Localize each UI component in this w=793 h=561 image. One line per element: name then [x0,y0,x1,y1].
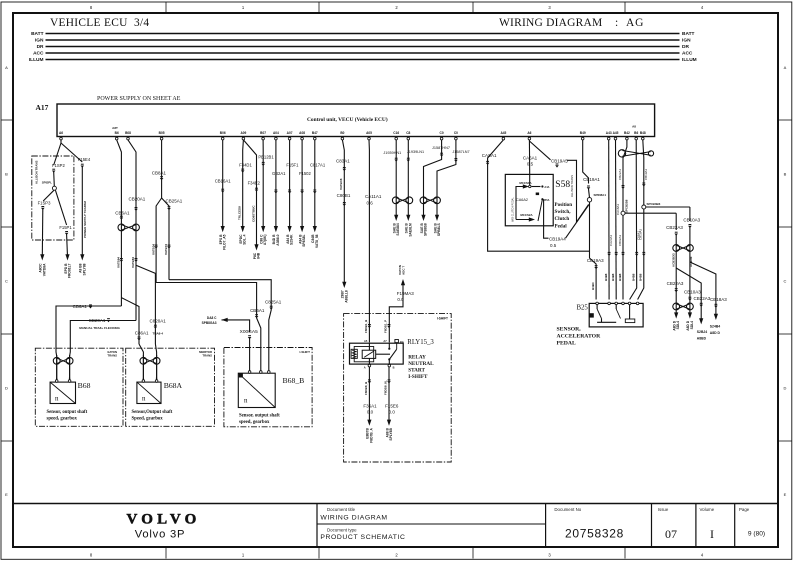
svg-text:ALLISON TRANS: ALLISON TRANS [34,160,38,184]
svg-text:C86A1: C86A1 [135,330,149,335]
svg-text:0.0: 0.0 [397,297,404,302]
svg-text:SAE884: SAE884 [396,223,400,235]
svg-text:0.0: 0.0 [367,410,374,415]
svg-text:ILLUM: ILLUM [682,57,697,63]
svg-text:CB22A3: CB22A3 [667,281,684,286]
svg-text:F15P1: F15P1 [59,225,72,230]
svg-text:C817A1: C817A1 [310,163,326,168]
svg-text:POWER SUPPLY ON SHEET AE: POWER SUPPLY ON SHEET AE [97,96,181,102]
svg-text:CB8A1: CB8A1 [152,171,167,176]
svg-text:F1SP2: F1SP2 [52,163,65,168]
svg-text:B5A: B5A [544,199,549,202]
svg-text:B4B8: B4B8 [632,273,636,281]
svg-text:SPB8LS: SPB8LS [437,223,441,237]
svg-text:Control unit, VECU (Vehicle EC: Control unit, VECU (Vehicle ECU) [307,116,388,123]
svg-text:SDL4: SDL4 [676,321,680,330]
svg-text:Sensor,Output shaft: Sensor,Output shaft [132,410,173,415]
svg-text:I-SHIFT: I-SHIFT [437,316,448,320]
svg-text:Document type: Document type [327,527,357,532]
svg-text:CB19A1: CB19A1 [644,168,648,180]
svg-text:J1939LN1: J1939LN1 [407,150,424,154]
svg-text:Issue: Issue [658,507,669,512]
svg-text:C83A1: C83A1 [336,158,350,163]
svg-text:A8BLL8: A8BLL8 [344,290,348,303]
svg-text:VOLVO: VOLVO [126,512,200,528]
svg-text:F15E4: F15E4 [78,157,91,162]
svg-text:MANUAL TRA8+ FLECKING: MANUAL TRA8+ FLECKING [79,326,120,330]
svg-text:A04: A04 [273,131,279,135]
svg-text:B49: B49 [580,131,586,135]
svg-text:A45: A45 [500,131,506,135]
svg-text:AG: AG [626,17,644,29]
svg-text:SPB8S8: SPB8S8 [424,223,428,236]
svg-text:A4A: A4A [544,186,549,189]
svg-text:CB19A2: CB19A2 [639,228,643,240]
svg-text:A: A [5,65,8,70]
svg-text:POWER SUPPLY TRA8SM: POWER SUPPLY TRA8SM [83,200,87,238]
svg-text:A5: A5 [364,339,368,343]
svg-text:GB2A1: GB2A1 [272,171,286,176]
svg-text:ILLUM: ILLUM [29,57,44,63]
svg-text:A07: A07 [287,131,293,135]
svg-text:F8DB8_8L: F8DB8_8L [384,380,388,395]
svg-text:B4B8: B4B8 [639,273,643,281]
svg-text:SPCB2B8: SPCB2B8 [625,199,629,213]
svg-text:F8DB8_B: F8DB8_B [364,381,368,395]
svg-text:B68A: B68A [164,381,183,390]
svg-text:B6: B6 [115,131,119,135]
svg-text:A3B8.0: A3B8.0 [276,234,280,245]
svg-text:VEHICLE ECU 3/4: VEHICLE ECU 3/4 [50,17,149,29]
svg-text:TRANS: TRANS [202,354,212,358]
svg-text:B6: B6 [634,131,638,135]
svg-text:ACC: ACC [33,51,44,57]
svg-text:A05: A05 [366,131,372,135]
svg-text:MCCS2A: MCCS2A [520,213,533,217]
svg-text:BATT: BATT [31,31,44,37]
svg-text:Sensor, output shaft: Sensor, output shaft [239,414,280,419]
svg-text:SP8S8L: SP8S8L [302,235,306,247]
svg-text:CB10A3: CB10A3 [683,217,700,222]
svg-text:A6: A6 [59,131,63,135]
svg-text:ALLISON TRANS: ALLISON TRANS [570,175,574,197]
svg-text:F36A1: F36A1 [363,404,377,409]
svg-text:Document title: Document title [327,507,356,512]
svg-text:0.5: 0.5 [550,243,557,248]
svg-text:B4B8: B4B8 [604,273,608,281]
svg-text:ACC: ACC [682,51,693,57]
svg-text:B42: B42 [624,131,630,135]
svg-text:CB19A5: CB19A5 [551,158,568,163]
svg-text:Sensor, output shaft: Sensor, output shaft [47,410,88,415]
svg-text:ACCELERATOR: ACCELERATOR [557,334,602,340]
svg-text:Clutch: Clutch [555,216,570,222]
svg-text:RLY15_3: RLY15_3 [407,339,434,346]
svg-text:B06: B06 [220,131,226,135]
svg-text:Volume: Volume [700,507,715,512]
svg-text:TRA8-4: TRA8-4 [153,332,164,336]
svg-text:START: START [408,368,425,374]
svg-text:B: B [784,172,787,177]
svg-text:C0: C0 [454,131,458,135]
svg-text:SPB8GA3: SPB8GA3 [202,321,217,325]
svg-text:CB16A1: CB16A1 [215,179,232,184]
svg-text:C0: C0 [440,131,444,135]
svg-text:speed, gearbox: speed, gearbox [47,417,78,422]
svg-text:B68: B68 [78,381,91,390]
svg-text:WIRING DIAGRAM: WIRING DIAGRAM [499,17,602,29]
svg-text:B: B [393,365,395,369]
svg-text:VAT8_58: VAT8_58 [315,234,319,248]
svg-text:I-SHIFT: I-SHIFT [300,350,311,354]
svg-text:Pedal: Pedal [555,223,568,229]
svg-text:CB10A3: CB10A3 [684,290,701,295]
svg-text:CB22A3: CB22A3 [666,225,683,230]
svg-text:A6: A6 [527,131,531,135]
svg-text:CA23A1: CA23A1 [609,234,613,246]
svg-text:CA18A1: CA18A1 [616,203,620,215]
svg-text:CB6A1: CB6A1 [115,210,130,215]
svg-text:B07: B07 [260,131,266,135]
svg-text:F15E6: F15E6 [385,404,399,409]
svg-text:DR: DR [37,44,44,50]
svg-text:CB20A1: CB20A1 [129,197,146,202]
svg-text:A09: A09 [240,131,246,135]
svg-text:C820A1: C820A1 [149,319,166,324]
svg-text:DA8 C: DA8 C [207,316,217,320]
svg-text:CB6A1: CB6A1 [73,304,88,309]
svg-text:speed, gearbox: speed, gearbox [239,420,270,425]
svg-text:B08: B08 [125,131,131,135]
svg-text:B48: B48 [640,131,646,135]
svg-text:C80B1: C80B1 [337,193,351,198]
svg-text:0.5: 0.5 [527,162,534,167]
svg-text:RELAY: RELAY [408,355,426,361]
svg-text:VATB04: VATB04 [164,244,168,255]
svg-text:B47: B47 [312,131,318,135]
svg-text:CB18A3: CB18A3 [710,297,727,302]
svg-text:F1502: F1502 [299,171,312,176]
svg-text:B4B8: B4B8 [611,273,615,281]
svg-text:SPID8A1: SPID8A1 [594,193,607,197]
svg-text:F1SP3: F1SP3 [38,200,51,205]
svg-text:Volvo 3P: Volvo 3P [135,529,186,541]
svg-text:C16: C16 [393,131,399,135]
svg-text:VATB04: VATB04 [151,244,155,255]
svg-text:S2S4K: S2S4K [290,234,294,245]
svg-text:E: E [784,492,787,497]
svg-text:07: 07 [665,527,677,541]
svg-text:MCCS3A: MCCS3A [519,181,532,185]
svg-text:A43: A43 [606,131,612,135]
svg-text:PRODUCT SCHEMATIC: PRODUCT SCHEMATIC [320,534,405,541]
svg-text:B68_B: B68_B [283,376,305,385]
svg-text:Switch,: Switch, [555,209,572,215]
svg-text:CB19A3: CB19A3 [587,258,604,263]
svg-text:SPLY88: SPLY88 [82,263,86,275]
svg-text:A8BD: A8BD [697,337,707,341]
svg-text:ADC T: ADC T [402,266,406,275]
svg-text:CB22A1: CB22A1 [618,168,622,180]
svg-text:J1587HN7: J1587HN7 [432,146,450,150]
svg-text:F8DB1_P: F8DB1_P [383,320,387,333]
svg-text:S24B4: S24B4 [710,325,720,329]
svg-text:n: n [142,395,146,403]
svg-text:C: C [5,279,8,284]
svg-text:B: B [5,172,8,177]
svg-text:SDL4: SDL4 [690,321,694,330]
svg-text:n: n [244,397,248,405]
svg-text:A8T: A8T [112,126,118,130]
svg-text:F34D1: F34D1 [239,163,252,168]
svg-text:D: D [5,386,8,391]
svg-text:VATB84: VATB84 [117,257,121,268]
svg-text:C: C [784,279,787,284]
svg-text:Position: Position [555,202,573,208]
svg-text:0.6: 0.6 [367,201,374,206]
svg-text:TRANS: TRANS [107,354,117,358]
svg-text:FILO7_A5: FILO7_A5 [223,234,227,250]
svg-text:CB6A1: CB6A1 [250,308,265,313]
svg-text:C8: C8 [406,131,410,135]
svg-text:X00GA5: X00GA5 [240,329,258,335]
svg-text:BATT: BATT [682,31,695,37]
svg-text:Document No: Document No [554,507,581,512]
svg-text:IGN: IGN [35,38,44,44]
svg-text:0.0: 0.0 [389,410,396,415]
svg-text:ACB8M: ACB8M [689,256,693,267]
svg-text:CA6A1: CA6A1 [523,156,538,161]
svg-text:SPISPL: SPISPL [42,181,53,185]
svg-text:SPCB3B3: SPCB3B3 [647,202,661,206]
svg-text:F19MA3: F19MA3 [397,291,415,296]
svg-text:B25: B25 [577,305,589,312]
svg-text:D: D [784,386,787,391]
svg-text:S58: S58 [555,180,570,190]
svg-text:VATD8A: VATD8A [42,263,46,276]
svg-text:I: I [710,527,714,541]
svg-text:J1587LN7: J1587LN7 [452,150,469,154]
svg-text:TRLCED8: TRLCED8 [238,206,242,220]
svg-text:B0: B0 [340,131,344,135]
svg-text:CA11A1: CA11A1 [365,194,382,199]
svg-text:B4BC: B4BC [591,281,595,290]
svg-text:S2BJ4: S2BJ4 [697,330,707,334]
svg-text:VATB84: VATB84 [131,257,135,268]
svg-text:E: E [5,492,8,497]
svg-text:IGN: IGN [682,38,691,44]
svg-text:C825A1: C825A1 [265,300,282,305]
svg-text:F34E2: F34E2 [248,180,261,185]
svg-text:CB22A3: CB22A3 [694,296,711,301]
svg-text:84B: 84B [257,252,261,259]
svg-text:B4B8: B4B8 [618,273,622,281]
svg-text:CB20A1: CB20A1 [89,318,106,323]
svg-text:NEUTRAL: NEUTRAL [408,361,434,367]
svg-text:SDL_4: SDL_4 [243,234,247,244]
svg-text:CASA1: CASA1 [482,153,497,158]
svg-text:B05: B05 [159,131,165,135]
svg-text:ACB3B3G: ACB3B3G [671,252,675,267]
svg-text:FRO81L7: FRO81L7 [68,263,72,278]
svg-text:CB19A1: CB19A1 [583,177,600,182]
svg-text:CB25A1: CB25A1 [166,198,183,203]
svg-text:CA6A2: CA6A2 [516,198,528,202]
svg-text:DR: DR [682,44,689,50]
svg-text:W/O CLUTCH PEDAL: W/O CLUTCH PEDAL [511,197,514,222]
svg-text:9 (80): 9 (80) [748,531,765,538]
svg-text::: : [615,17,618,29]
svg-text:A7(8K): A7(8K) [263,235,267,246]
svg-text:A8D D: A8D D [710,331,721,335]
svg-text:A: A [364,365,366,369]
svg-text:A8: A8 [632,125,636,129]
svg-text:Speed, gearbox: Speed, gearbox [132,417,164,422]
svg-text:WIRING DIAGRAM: WIRING DIAGRAM [320,514,387,521]
svg-text:A17: A17 [36,103,49,112]
svg-text:F15F1: F15F1 [286,163,299,168]
svg-text:n: n [55,395,59,403]
svg-text:SPLY8B: SPLY8B [389,427,393,440]
svg-text:PB12B1: PB12B1 [258,155,274,160]
svg-text:Page: Page [739,507,750,512]
svg-text:F8DB1_B: F8DB1_B [364,319,368,333]
svg-text:BA: BA [400,340,404,344]
svg-text:SENSOR,: SENSOR, [557,327,582,333]
svg-text:PEDAL: PEDAL [557,341,576,347]
svg-text:A: A [784,65,787,70]
svg-text:CB19A4: CB19A4 [549,237,566,242]
svg-text:F8D7B_A: F8D7B_A [369,427,373,442]
svg-text:J1939HN1: J1939HN1 [383,151,401,155]
svg-text:CO8STBUC: CO8STBUC [252,205,256,222]
svg-text:CB02A3: CB02A3 [618,234,622,246]
svg-text:I-SHIFT: I-SHIFT [408,374,428,380]
svg-text:SAE8LM: SAE8LM [408,223,412,237]
svg-text:A45: A45 [613,131,619,135]
svg-text:A08: A08 [299,131,305,135]
svg-text:VATED8: VATED8 [339,178,343,190]
svg-text:A7: A7 [383,339,387,343]
svg-text:20758328: 20758328 [565,527,624,541]
